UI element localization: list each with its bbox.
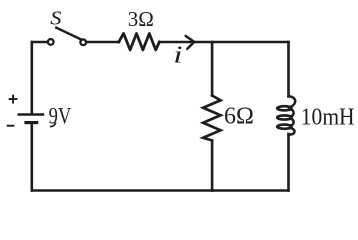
svg-text:S: S	[50, 8, 61, 30]
svg-text:10mH: 10mH	[301, 103, 355, 130]
svg-text:3Ω: 3Ω	[128, 7, 154, 31]
svg-text:6Ω: 6Ω	[224, 102, 254, 129]
svg-text:i: i	[173, 42, 182, 68]
